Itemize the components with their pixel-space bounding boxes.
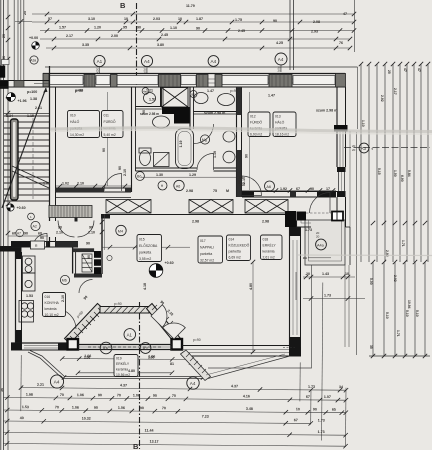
svg-text:70: 70 [172,394,176,398]
bath 012 east sinks [223,131,235,142]
svg-text:1.68: 1.68 [43,182,50,186]
svg-text:1.73: 1.73 [318,430,325,434]
svg-text:p=90: p=90 [75,89,83,93]
kitchen cabinet R [31,241,45,249]
section marker circle A3a [30,56,38,64]
svg-text:+0.60: +0.60 [17,206,26,210]
svg-text:20: 20 [278,69,282,73]
svg-text:90: 90 [196,27,200,31]
svg-text:5,40 m2: 5,40 m2 [104,133,116,137]
kitchen door arc [79,280,93,294]
svg-text:90: 90 [58,226,62,230]
door arc room 010 [104,174,122,192]
svg-text:10.94: 10.94 [407,300,411,309]
svg-text:10: 10 [124,17,128,21]
room label 011 FURDO [102,111,124,138]
svg-text:ELŐSZOBA: ELŐSZOBA [139,243,158,248]
svg-text:2.10: 2.10 [88,231,95,235]
svg-text:2.10: 2.10 [77,182,84,186]
svg-text:B5: B5 [191,93,195,97]
small sill rect top-left [2,60,10,65]
svg-text:014: 014 [229,238,235,242]
svg-text:75: 75 [213,189,217,193]
svg-text:1.53: 1.53 [22,405,29,409]
svg-text:A4: A4 [54,380,60,386]
section line B (bottom) [139,302,141,449]
svg-text:B: B [120,1,126,10]
bath WC nook wall horizontal [136,107,164,110]
nappali datum symbol +0.60 [149,261,173,277]
svg-text:14,30 m2: 14,30 m2 [70,133,84,137]
entry north wall (kitchen top) [11,242,78,248]
svg-text:90: 90 [239,176,243,180]
terrace east chamfer (hatched steps) [181,350,211,381]
wall bath012 / room013 [237,87,242,197]
pantry shelves [82,254,92,272]
svg-text:90: 90 [140,406,144,410]
svg-text:2.45: 2.45 [161,33,168,37]
svg-text:2,61 m2: 2,61 m2 [263,256,275,260]
circled marker A2 (below stair) [31,221,40,230]
svg-text:10,56 m2: 10,56 m2 [116,373,130,377]
roof top tick row [359,62,430,66]
svg-text:1.19: 1.19 [179,141,183,148]
svg-text:5.10: 5.10 [415,310,419,317]
loggia north wall (hatched band) [100,307,149,314]
svg-text:90: 90 [86,242,90,246]
entry hall hatched wall band [49,206,92,218]
terrace south edge [63,377,206,379]
svg-text:p=100: p=100 [27,90,37,94]
room label 015 ELOSZOBA [137,235,162,262]
roof horizontal section line A3 [344,147,430,149]
svg-text:2.02: 2.02 [393,275,397,282]
svg-text:67: 67 [306,395,310,399]
loggia east diagonal wall (hatched) [147,304,182,344]
marker 4a (wc nook) [142,88,149,95]
marker A6 (bath below) [174,180,184,190]
ventilation shaft with X [162,88,189,108]
svg-text:A1: A1 [97,59,103,64]
terrace-to-wall diagonal projection [208,356,290,379]
bath 011 sink oval [153,116,170,128]
roof plan lines (right side, upper group) [361,64,428,262]
svg-text:10.32: 10.32 [82,417,91,421]
svg-text:10: 10 [178,17,182,21]
svg-text:1.57: 1.57 [59,26,66,30]
svg-text:5.10: 5.10 [405,310,409,317]
top rows left extension [15,21,32,23]
corridor closet band line [106,214,296,216]
svg-text:70: 70 [162,406,166,410]
svg-text:.10: .10 [344,272,349,276]
svg-text:kerámia: kerámia [263,250,275,254]
left border dimension line vertical [1,0,8,450]
svg-text:95: 95 [123,26,127,30]
bath east wall [190,87,194,129]
section line A-A vertical (double, right of B) [290,0,294,70]
svg-text:+0.00: +0.00 [29,36,38,40]
svg-text:1.06: 1.06 [72,406,79,410]
svg-text:A6: A6 [176,184,180,188]
closet 2 with X [189,200,233,214]
room 013 interior dim vertical [249,92,251,190]
paper crease lower right (overlay) [298,254,432,257]
marker Bo (bath 011) [136,172,145,181]
loggia west corner post [68,339,79,350]
svg-text:1.73: 1.73 [308,385,315,389]
svg-text:13.17: 13.17 [150,440,159,444]
north wall inner face [49,86,345,88]
terrace west chamfer [28,351,65,379]
marker A1 (loggia) [124,329,136,341]
room label 017 NAPPALI [198,236,223,263]
erkely018 door arc [310,193,331,214]
svg-text:KÖZLEKEDŐ: KÖZLEKEDŐ [229,243,250,248]
wc nook east wall [160,87,162,107]
svg-text:M6: M6 [62,279,67,283]
nappali south wall [182,346,301,357]
svg-text:36: 36 [0,388,4,392]
svg-text:1.98: 1.98 [26,393,33,397]
svg-text:1.06: 1.06 [77,393,84,397]
svg-text:Mg: Mg [202,138,207,142]
roof mid tick row (y=223) [371,221,427,225]
loggia double door arcs [151,305,167,328]
north wall masonry piers (hatched) [43,74,346,88]
garden wall stub at west [0,246,16,252]
svg-text:81: 81 [170,362,174,366]
svg-text:5.15: 5.15 [377,168,381,175]
svg-text:1.50: 1.50 [393,170,397,177]
svg-text:57: 57 [48,17,52,21]
erkely018 threshold dashed [306,212,332,214]
bath 012 nook door arc [194,124,214,144]
svg-text:2.10: 2.10 [123,169,127,176]
svg-text:NAPPALI: NAPPALI [200,246,214,250]
svg-text:210: 210 [239,183,245,187]
svg-text:90: 90 [87,255,91,259]
svg-text:c=: c= [303,256,307,260]
section marker circle A4 (left) [141,55,152,74]
svg-text:20: 20 [352,148,356,152]
kitchen counter lower (sink 4 circles) [19,301,34,323]
kitchen south wall with window [11,343,68,351]
black pier corridor/nappali [285,211,296,227]
svg-text:90: 90 [89,226,93,230]
svg-text:1.47: 1.47 [207,89,214,93]
svg-text:29: 29 [2,34,6,38]
svg-text:2.17: 2.17 [393,88,397,95]
room label 018 ERKELY [261,235,283,260]
svg-text:90: 90 [137,26,141,30]
svg-text:1.43: 1.43 [322,272,329,276]
pantry black posts [94,251,101,258]
east wall 013->balcony step [337,197,350,347]
svg-text:90: 90 [118,166,122,170]
svg-text:65: 65 [332,408,336,412]
svg-text:ERKÉLY: ERKÉLY [116,361,130,366]
room label 010 HALO [68,111,100,138]
svg-text:4.80: 4.80 [128,369,135,373]
svg-text:1.75: 1.75 [235,18,242,22]
svg-text:32,57 m2: 32,57 m2 [200,259,214,263]
bottom dim verticals / projection lines [21,280,347,447]
svg-text:90: 90 [273,19,277,23]
svg-text:kerámia: kerámia [45,307,57,311]
closet 3 with X [245,200,288,214]
bath 012 top nook wall [194,112,240,115]
corridor top line [56,197,132,199]
north wall outer face [43,73,345,75]
bottom dimension numbers [0,353,343,445]
stair break line [12,166,49,183]
svg-text:90: 90 [40,236,44,240]
room label 012 FURDO [248,112,270,137]
svg-text:6.90: 6.90 [400,175,404,182]
svg-text:47: 47 [403,68,407,72]
svg-text:2.10: 2.10 [61,295,65,302]
svg-text:3.48: 3.48 [246,407,253,411]
roof bottom terminator line with ticks [369,355,430,357]
svg-text:2.98: 2.98 [192,220,199,224]
room label 016 KONYHA [43,293,66,318]
loggia west diagonal wall (hatched) [65,304,104,344]
svg-text:34: 34 [339,385,343,389]
svg-text:1.38: 1.38 [30,97,37,101]
svg-text:parketta: parketta [139,251,151,255]
section marker circle A5 (right end, partially) [208,56,219,67]
svg-text:012: 012 [250,115,256,119]
north wall eave line [45,66,358,68]
svg-text:4.16: 4.16 [243,394,250,398]
entry center door post [75,218,78,222]
svg-text:2.92: 2.92 [380,95,384,102]
svg-text:11.44: 11.44 [145,429,154,433]
svg-text:010: 010 [70,114,76,118]
svg-text:2.21: 2.21 [37,383,44,387]
svg-text:10: 10 [296,407,300,411]
svg-text:A3: A3 [361,146,367,151]
room label 013 HALO [273,112,296,137]
svg-text:1.06: 1.06 [133,394,140,398]
svg-text:+0.60: +0.60 [165,261,174,265]
svg-text:HÁLÓ: HÁLÓ [275,120,285,125]
room label 019 ERKELY [114,355,138,378]
section marker circle A3 (roof) [352,143,374,153]
svg-text:1.53: 1.53 [149,98,156,102]
svg-text:1.73: 1.73 [318,418,325,422]
svg-text:3.10: 3.10 [88,17,95,21]
svg-text:5.00: 5.00 [369,278,373,285]
svg-text:017: 017 [200,239,206,243]
marker M6 (konyha) [60,275,69,284]
svg-text:70: 70 [60,393,64,397]
svg-text:3.35: 3.35 [82,43,89,47]
datum level symbol +0.00 [29,36,39,49]
top dimension tick marks [45,12,356,50]
svg-text:A1: A1 [127,332,133,337]
svg-text:4.37: 4.37 [120,383,127,387]
west wall of building (along stair) [50,66,56,247]
svg-text:7.23: 7.23 [202,415,209,419]
svg-text:90: 90 [98,393,102,397]
closet 1 with X [106,200,151,214]
svg-text:90: 90 [245,154,249,158]
section marker circle A4 (right section) [275,53,287,73]
svg-text:6,69 m2: 6,69 m2 [229,256,241,260]
south wall of room 013 [242,192,346,198]
kitchen counter upper (stove) [23,256,36,291]
svg-text:2.93: 2.93 [311,30,318,34]
svg-text:013: 013 [275,115,281,119]
svg-text:6,93 m2: 6,93 m2 [250,133,262,137]
room 010 interior dim vertical [107,92,109,186]
left neighbour wall black pieces [0,66,5,78]
WC nook oval (011) [144,93,156,104]
svg-text:szum 2.98 m: szum 2.98 m [316,109,337,113]
svg-text:1.73: 1.73 [324,294,331,298]
svg-text:1.06: 1.06 [84,356,90,360]
svg-text:3,55 m2: 3,55 m2 [139,257,151,261]
svg-text:47: 47 [343,12,347,16]
loggia width dim line 4.80 [78,372,172,374]
svg-text:p=90: p=90 [230,89,238,93]
stair centerline [32,118,34,199]
svg-text:2.45: 2.45 [238,29,245,33]
marker A6 (room 013 door) [265,181,275,191]
svg-text:A2: A2 [142,346,148,351]
stair upper dim texts [6,90,42,118]
marker A4a (erkely018) [316,239,327,250]
svg-text:35: 35 [369,345,373,349]
staircase treads [4,116,49,201]
datum level symbol +1.96 [7,93,27,103]
svg-text:1.19: 1.19 [213,151,217,158]
bath south wall [136,168,240,171]
svg-text:10,10 m2: 10,10 m2 [45,313,59,317]
svg-text:20: 20 [316,235,320,239]
svg-text:kerámia: kerámia [116,368,128,372]
interior dim rows (r013 + r010) [56,177,336,352]
svg-text:5.10: 5.10 [385,312,389,319]
svg-text:szum 2.98 m: szum 2.98 m [204,111,225,115]
marker A4 (terrace east) [187,377,199,389]
svg-text:1.71: 1.71 [396,330,400,337]
small dim ticks below stair [8,235,48,237]
roof dimension numbers (rotated) [361,68,421,349]
erkely018 floor [305,220,345,265]
marker H (bath below) [158,181,167,190]
closet band south black stub [101,214,110,219]
svg-text:76: 76 [339,41,343,45]
svg-text:A5: A5 [103,346,109,351]
svg-text:4.37: 4.37 [231,384,238,388]
svg-text:FÜRDŐ: FÜRDŐ [250,120,262,125]
eave overhang line SE corner [208,227,312,368]
svg-text:A4: A4 [211,59,217,64]
svg-text:parketta: parketta [200,252,212,256]
svg-text:1.20: 1.20 [94,26,101,30]
svg-text:parketta: parketta [229,250,241,254]
svg-text:1.87: 1.87 [196,17,203,21]
marker A4 (terrace west) [50,375,63,388]
svg-text:2.98: 2.98 [186,189,193,193]
svg-text:2.00: 2.00 [111,34,118,38]
svg-text:60: 60 [12,232,16,236]
marker B5 (bath 012 nook) [190,91,197,98]
svg-text:1.10: 1.10 [361,120,365,127]
stairwell north wall band [0,81,50,88]
svg-text:+1.96: +1.96 [18,99,27,103]
nappali east wall [290,227,301,347]
entry double door arcs (center hinged) [58,221,75,238]
svg-text:FÜRDŐ: FÜRDŐ [104,119,116,124]
entry door arc [33,233,47,247]
hall/kitchen wall vertical [73,247,102,278]
svg-text:HÁLÓ: HÁLÓ [70,119,80,124]
marker A7 (entry) [16,229,24,237]
marker A5 (loggia parapet) [100,342,112,354]
south wall of room 010 [56,188,132,192]
svg-text:A3a: A3a [30,59,36,63]
bath 011 toilet [139,148,151,166]
svg-text:016: 016 [45,295,51,299]
svg-text:M4: M4 [118,229,123,233]
svg-text:2.08: 2.08 [313,20,320,24]
room label 014 KOZLEKEDO [227,235,251,261]
loggia parapet (south edge) [78,345,172,350]
svg-text:67: 67 [294,418,298,422]
svg-text:018: 018 [263,238,269,242]
svg-text:1.29: 1.29 [189,173,196,177]
svg-text:1.47: 1.47 [268,94,275,98]
svg-text:11.79: 11.79 [186,4,195,8]
svg-text:40: 40 [20,416,24,420]
erkely018 west pier [297,212,307,221]
loggia parapet centerline dashes [88,346,162,348]
datum level symbol +0.60 (stair foot) [7,204,26,211]
bath door arc [197,154,214,171]
svg-text:1.10: 1.10 [170,26,177,30]
svg-text:1.07: 1.07 [324,395,331,399]
eloszoba west wall stub [101,215,103,275]
svg-text:A4: A4 [144,59,150,64]
bottom dimension lines [0,280,349,448]
svg-text:1.06: 1.06 [148,356,154,360]
svg-text:1.21: 1.21 [146,89,153,93]
svg-text:90: 90 [313,407,317,411]
stair walking line (up arrow) [2,88,46,208]
west wall lower (kitchen) [16,247,22,343]
svg-text:2.17: 2.17 [66,34,73,38]
left wall projection lines above building [14,0,24,81]
bottom dim ticks [5,356,349,449]
svg-text:A4: A4 [190,381,196,386]
svg-text:A4a: A4a [317,243,325,247]
top dim terminator vertical right [354,0,356,52]
svg-text:2.10: 2.10 [56,231,63,235]
svg-text:.20: .20 [305,272,310,276]
svg-text:A6: A6 [266,185,271,189]
stair top boundary line [4,113,51,115]
erkely018 east pier [332,212,343,221]
roof plan lines (right side, lower group) [373,262,425,356]
svg-text:019: 019 [116,357,122,361]
east wall upper (room 013) [334,87,348,197]
top dimension numbers [48,4,347,47]
svg-text:ERKÉLY: ERKÉLY [263,243,277,248]
